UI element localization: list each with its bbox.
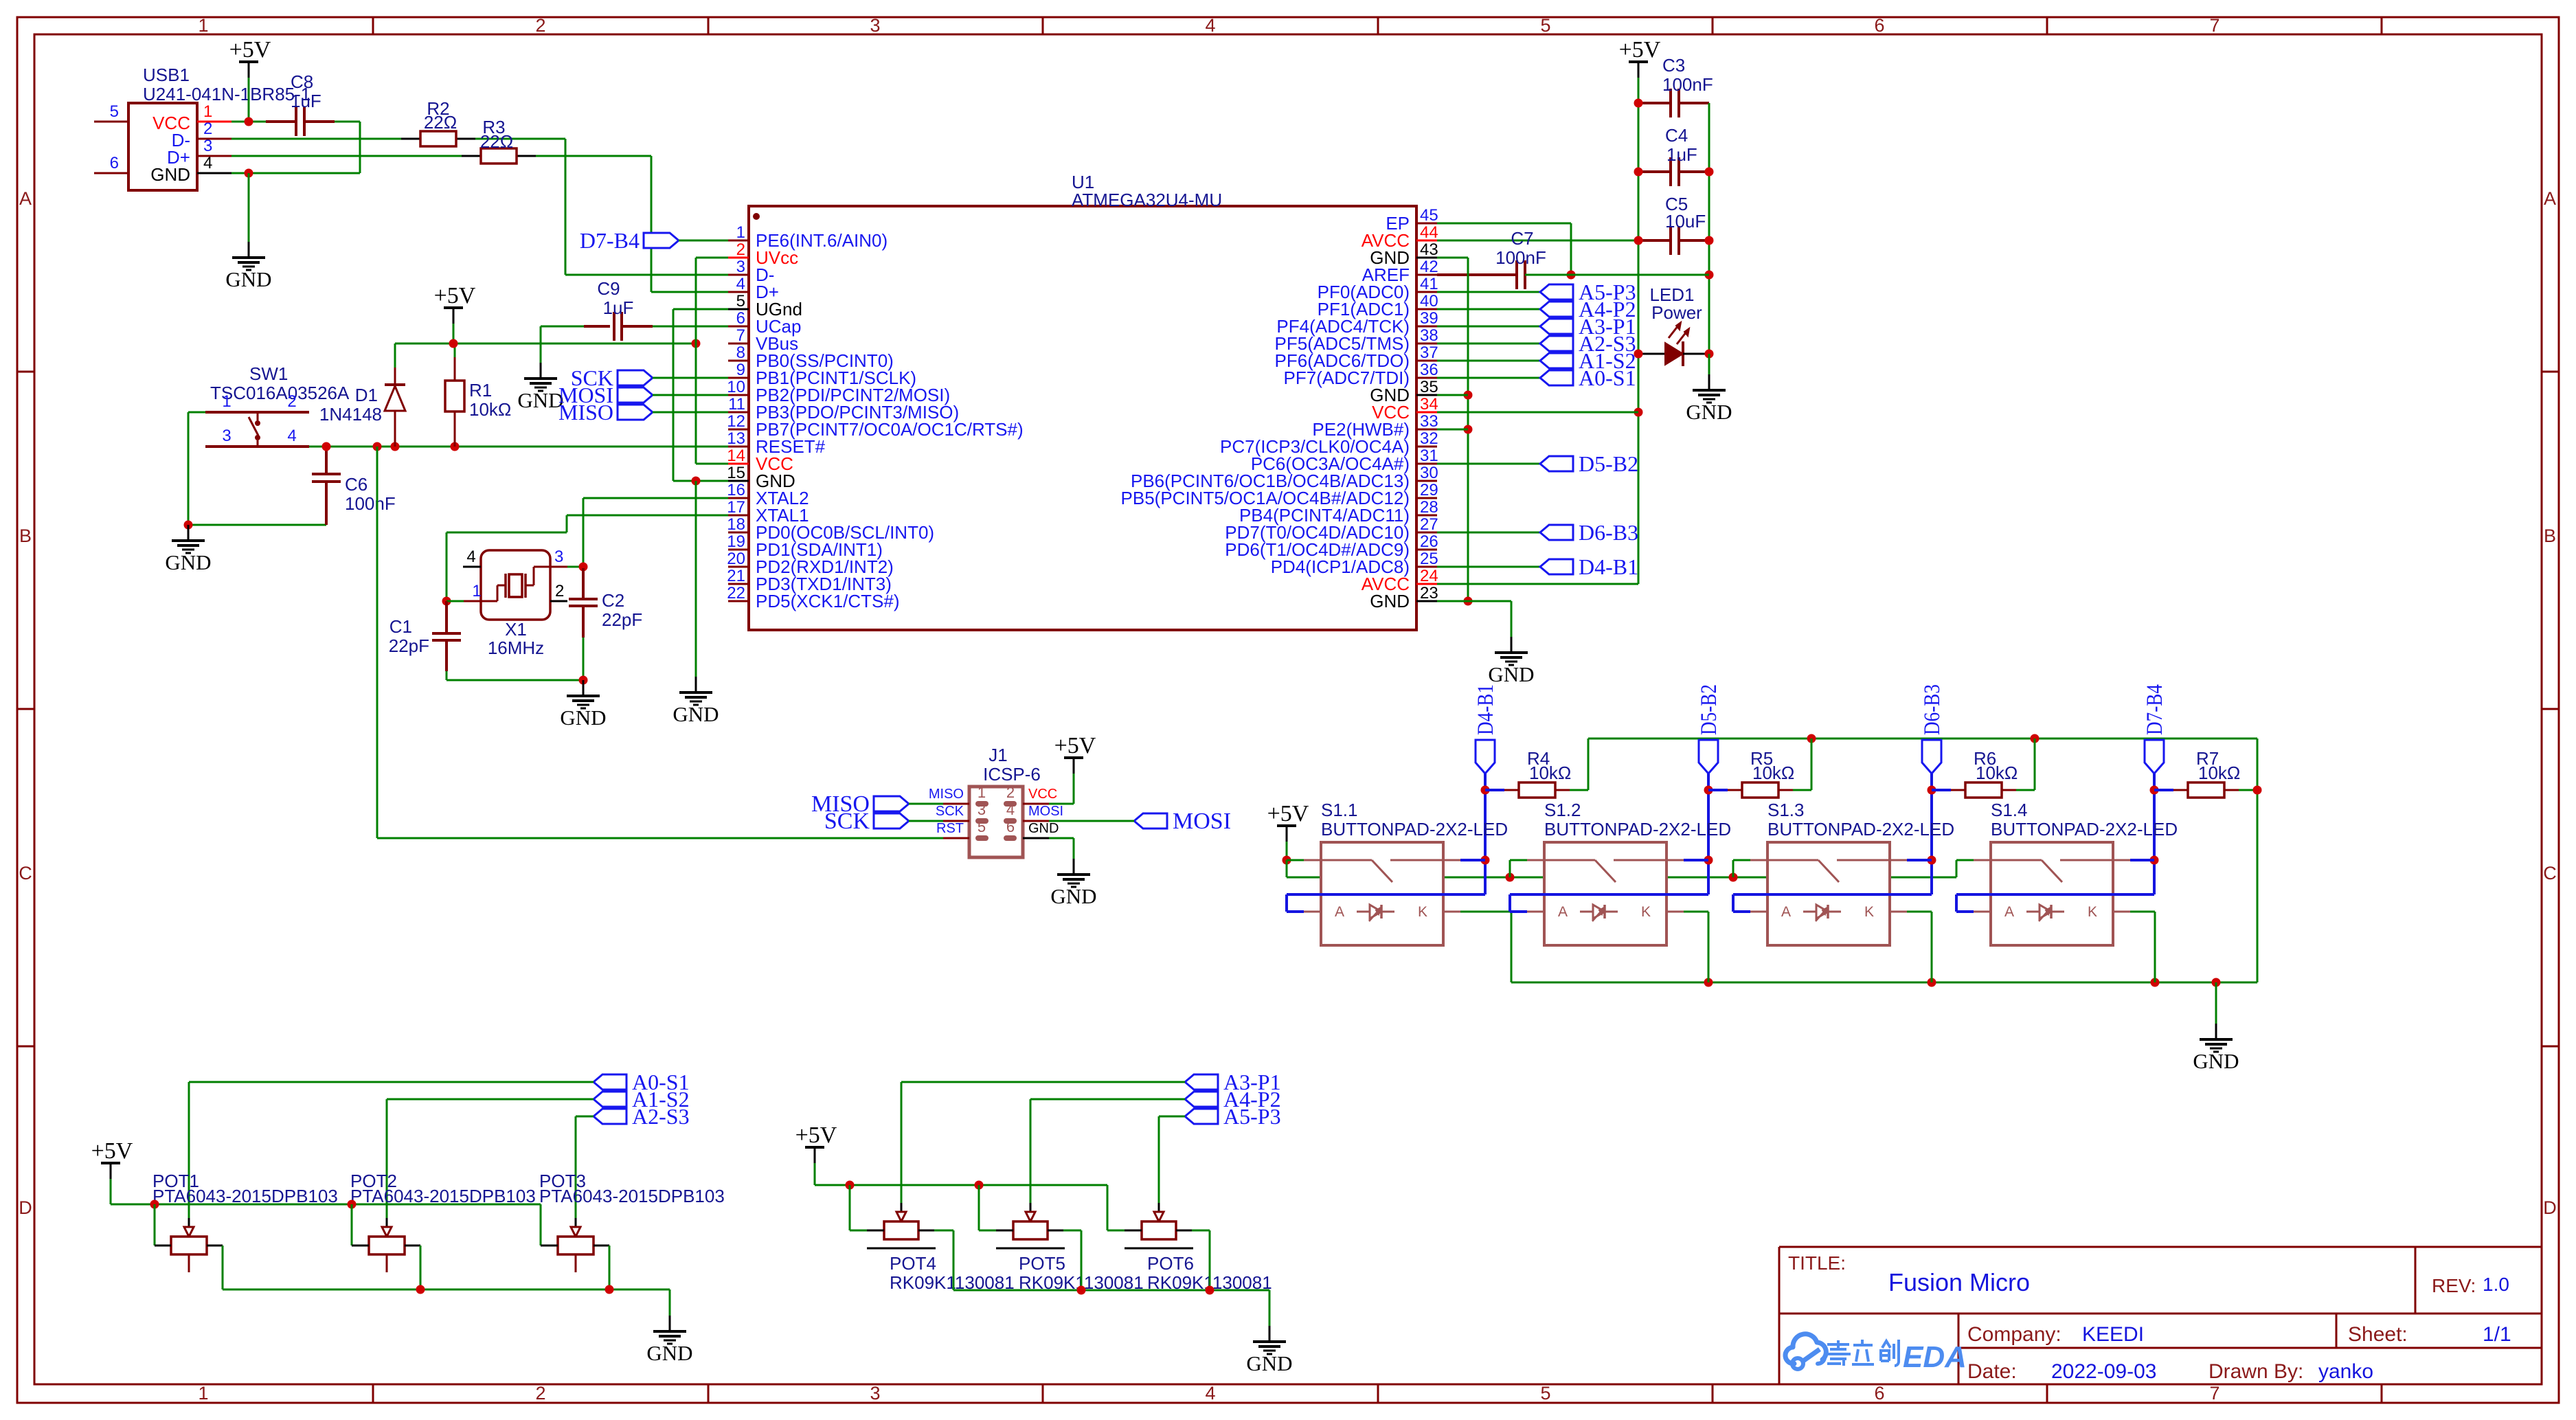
svg-text:35: 35 (1420, 378, 1438, 396)
wire D4-B1 row (1437, 566, 1540, 568)
node +5V button pads (1283, 856, 1291, 865)
svg-text:22: 22 (727, 584, 745, 602)
net port SCK (ICSP) (824, 809, 909, 834)
+5V power flag (AVCC rail) (1619, 37, 1661, 78)
wire R4 to gnd bus (1570, 789, 1588, 791)
svg-text:U241-041N-1BR85-1: U241-041N-1BR85-1 (143, 84, 310, 104)
svg-text:VCC: VCC (1028, 787, 1057, 802)
svg-text:11: 11 (728, 395, 745, 414)
wire +5V pots2 row (814, 1163, 816, 1185)
wire XTAL1 row (567, 515, 728, 517)
U1 pin 35 GND (1370, 378, 1438, 405)
svg-text:A5-P3: A5-P3 (1223, 1104, 1281, 1129)
wire VCC pin34 row (1437, 412, 1638, 414)
svg-text:1uF: 1uF (291, 91, 321, 111)
svg-text:1uF: 1uF (603, 297, 634, 318)
svg-text:6: 6 (1874, 1383, 1884, 1404)
svg-text:Company:: Company: (1967, 1323, 2061, 1346)
svg-text:GND: GND (165, 550, 211, 574)
svg-text:SCK: SCK (936, 804, 964, 819)
USB1 pin 5 stub (94, 121, 128, 123)
wire D6-B3 row (1437, 532, 1540, 534)
svg-text:45: 45 (1420, 206, 1438, 225)
net port MISO (ICSP) (811, 791, 909, 817)
resistor R6 10kohm (1932, 748, 2018, 798)
node D5 resistor tap (1704, 786, 1713, 795)
svg-text:38: 38 (1420, 326, 1438, 345)
svg-text:GND: GND (1050, 884, 1096, 908)
U1 pin 25 PD4(ICP1/ADC8) (1271, 550, 1438, 577)
ground (POT4-6) (1246, 1326, 1292, 1375)
svg-text:SW1: SW1 (249, 363, 288, 384)
wire X1 pin3 to C2 node (567, 566, 583, 568)
svg-text:4: 4 (1006, 801, 1015, 818)
svg-text:PD5(XCK1/CTS#): PD5(XCK1/CTS#) (756, 591, 900, 611)
svg-text:4: 4 (287, 427, 296, 445)
wire GND23 drop (1511, 601, 1513, 637)
svg-text:1: 1 (736, 223, 745, 242)
+5V power flag (POT4-6) (795, 1123, 837, 1163)
wire S1.1 cathode drop (1460, 911, 1511, 913)
wire EP pin45 row (1437, 223, 1571, 225)
wire MOSI to pin10 (653, 394, 728, 396)
wire POT4 wiper net (901, 1081, 1185, 1083)
svg-text:10kΩ: 10kΩ (1976, 763, 2018, 783)
ground (MCU GND pin15) (673, 677, 719, 726)
node GND23 (1464, 597, 1473, 606)
svg-text:10kΩ: 10kΩ (1752, 763, 1794, 783)
wire MISO to J1 pin1 (909, 803, 943, 805)
svg-text:16MHz: 16MHz (488, 638, 544, 658)
svg-text:A: A (1335, 904, 1344, 920)
svg-text:A: A (19, 188, 32, 209)
wire S1.4 switch to D7 net (2130, 859, 2154, 861)
svg-text:7: 7 (2209, 15, 2219, 36)
svg-text:S1.1: S1.1 (1321, 800, 1358, 820)
node GND junction under USB (245, 169, 253, 178)
net port A1-S2 (1540, 348, 1636, 373)
resistor R7 10kohm (2154, 748, 2240, 798)
svg-text:3: 3 (870, 1383, 880, 1404)
U1 pin 28 PB4(PCINT4/ADC11) (1239, 498, 1438, 526)
USB1 pin 2 stub (D-) (197, 138, 231, 140)
wire +5V bypass vertical (1286, 860, 1288, 877)
resistor R5 10kohm (1708, 748, 1794, 798)
svg-text:Sheet:: Sheet: (2348, 1323, 2408, 1346)
svg-text:41: 41 (1420, 275, 1438, 293)
wire SW1 ground row (188, 524, 326, 526)
svg-text:10kΩ: 10kΩ (469, 399, 511, 420)
wire pots2 gnd row (953, 1289, 1269, 1292)
svg-text:37: 37 (1420, 343, 1438, 362)
wire POT5 right (1048, 1230, 1063, 1232)
svg-text:+5V: +5V (1267, 801, 1309, 826)
wire POT1 right (207, 1245, 223, 1247)
capacitor C9 1uF (541, 278, 728, 341)
svg-text:6: 6 (110, 154, 119, 172)
wire D+ row from USB to R3 (231, 155, 462, 157)
svg-text:D: D (2543, 1197, 2557, 1218)
svg-text:D4-B1: D4-B1 (1473, 684, 1498, 735)
U1 pin 16 XTAL2 (727, 481, 809, 508)
svg-text:A: A (1781, 904, 1791, 920)
wire A2-S3 row (1437, 343, 1540, 345)
wire crystal ground row (447, 679, 583, 681)
net port D7-B4 (button pad) (2143, 684, 2167, 774)
wire D7-B4 vertical (2153, 774, 2156, 894)
svg-text:28: 28 (1420, 498, 1438, 517)
U1 pin 3 D- (728, 258, 774, 285)
wire S1.3 +5V riser (1732, 860, 1735, 877)
svg-text:D4-B1: D4-B1 (1579, 554, 1638, 579)
net port A0-S1 (pots) (594, 1070, 690, 1094)
svg-text:43: 43 (1420, 240, 1438, 259)
wire S1.1 +5V feed (1287, 859, 1304, 861)
net port D5-B2 (button pad) (1697, 684, 1721, 774)
U1 pin 10 PB2(PDI/PCINT2/MOSI) (727, 378, 950, 405)
wire S1.4 cathode drop (2130, 911, 2155, 913)
+5V power flag (ICSP) (1054, 733, 1096, 774)
svg-text:BUTTONPAD-2X2-LED: BUTTONPAD-2X2-LED (1321, 819, 1508, 839)
svg-text:ATMEGA32U4-MU: ATMEGA32U4-MU (1072, 190, 1222, 210)
svg-text:BUTTONPAD-2X2-LED: BUTTONPAD-2X2-LED (1767, 819, 1954, 839)
wire POT2 left (351, 1204, 353, 1246)
svg-text:SCK: SCK (824, 809, 870, 834)
ground (MCU pin23) (1488, 637, 1534, 686)
svg-text:2: 2 (535, 1383, 545, 1404)
svg-text:34: 34 (1420, 395, 1438, 414)
switch SW1 TSC016A03526A (205, 363, 350, 447)
svg-text:D5-B2: D5-B2 (1697, 684, 1721, 735)
net port D7-B4 (to MCU PE6) (580, 228, 679, 253)
U1 pin 8 PB0(SS/PCINT0) (728, 343, 894, 371)
U1 pin 15 GND (727, 464, 795, 491)
net port MISO (to MCU PB3) (558, 400, 653, 425)
wire EP vertical (1570, 223, 1572, 275)
svg-text:39: 39 (1420, 309, 1438, 328)
svg-text:C8: C8 (291, 71, 313, 92)
node LED ends (1634, 350, 1643, 359)
svg-text:B: B (2544, 526, 2556, 546)
svg-text:100nF: 100nF (1495, 247, 1546, 268)
wire +5V stem (453, 324, 455, 343)
net port A3-P1 (pots) (1185, 1070, 1281, 1094)
net port D5-B2 (1540, 451, 1638, 476)
connector J1 ICSP-6 (929, 745, 1063, 857)
svg-text:1: 1 (198, 1383, 208, 1404)
potentiometer POT2 PTA6043-2015DPB103 (350, 1171, 536, 1272)
capacitor C8 body (266, 107, 335, 136)
node EP to AREF row (1567, 271, 1576, 280)
svg-text:2: 2 (535, 15, 545, 36)
svg-text:USB1: USB1 (143, 65, 190, 85)
svg-text:6: 6 (1006, 818, 1015, 835)
wire S1.2 cathode drop (1684, 911, 1708, 913)
potentiometer POT1 PTA6043-2015DPB103 (152, 1171, 338, 1272)
node D5 switch tap (1704, 856, 1713, 865)
svg-text:GND: GND (1246, 1351, 1292, 1375)
wire UVcc to pin2 (696, 257, 728, 259)
wire S1.2 +5V riser (1509, 860, 1511, 877)
JLC EDA logo (1785, 1334, 1967, 1374)
crystal X1 16MHz (463, 548, 567, 658)
svg-text:13: 13 (727, 429, 745, 448)
svg-text:1: 1 (978, 784, 986, 801)
op-amp U1 ATMEGA32U4-MU (MCU) (749, 172, 1416, 630)
wire POT6 right (1176, 1230, 1192, 1232)
svg-text:4: 4 (466, 548, 475, 566)
switch S1.2 BUTTONPAD-2X2-LED (1527, 800, 1731, 945)
wire +5V bypass row (1287, 877, 1956, 879)
svg-text:POT4: POT4 (890, 1253, 936, 1274)
svg-text:A: A (1558, 904, 1568, 920)
USB1 pin 3 stub (D+) (197, 155, 231, 157)
svg-text:1/1: 1/1 (2483, 1323, 2511, 1346)
svg-text:31: 31 (1420, 447, 1438, 465)
wire D5-B2 vertical (1707, 774, 1710, 894)
net port A2-S3 (1540, 331, 1636, 356)
USB1 pin 1 stub (VCC) (197, 121, 231, 123)
svg-text:27: 27 (1420, 515, 1438, 534)
U1 pin 26 PD6(T1/OC4D#/ADC9) (1225, 532, 1438, 560)
U1 pin 29 PB5(PCINT5/OC1A/OC4B#/ADC12) (1121, 481, 1438, 508)
svg-text:D7-B4: D7-B4 (2143, 684, 2167, 735)
svg-text:KEEDI: KEEDI (2082, 1323, 2144, 1346)
U1 pin 9 PB1(PCINT1/SCLK) (728, 361, 916, 388)
svg-text:K: K (2088, 904, 2097, 920)
wire J1 pin6 GND (1049, 837, 1074, 839)
svg-text:A0-S1: A0-S1 (1579, 365, 1636, 390)
U1 pin 18 PD0(OC0B/SCL/INT0) (727, 515, 934, 543)
wire D- to MCU pin3 (565, 274, 728, 276)
wire UGnd from pin5 (673, 308, 728, 311)
node UVcc vertical junction (692, 339, 701, 348)
wire D- row from USB to R2 (231, 138, 402, 140)
svg-text:3: 3 (870, 15, 880, 36)
svg-text:C9: C9 (597, 278, 620, 299)
net port A4-P2 (1540, 297, 1636, 322)
svg-text:POT5: POT5 (1019, 1253, 1065, 1274)
wire S1.2 anode route (1510, 893, 1708, 896)
svg-text:24: 24 (1420, 567, 1438, 585)
svg-text:POT6: POT6 (1147, 1253, 1194, 1274)
switch S1.3 BUTTONPAD-2X2-LED (1750, 800, 1954, 945)
net port A0-S1 (1540, 365, 1636, 390)
svg-text:BUTTONPAD-2X2-LED: BUTTONPAD-2X2-LED (1544, 819, 1731, 839)
wire reset vertical to ICSP RST (376, 447, 379, 838)
wire POT2 wiper net (387, 1098, 594, 1101)
svg-text:GND: GND (225, 267, 271, 291)
ground (POT1-3) (646, 1316, 692, 1365)
svg-text:D6-B3: D6-B3 (1579, 520, 1638, 545)
svg-text:EDA: EDA (1903, 1340, 1967, 1374)
wire S1.2 switch to D5 net (1684, 859, 1708, 861)
wire +5V pots row (110, 1179, 112, 1204)
wire S1.4 anode route (1956, 893, 2154, 896)
svg-text:S1.2: S1.2 (1544, 800, 1581, 820)
wire POT4 right (918, 1230, 934, 1232)
node GND35 (1464, 391, 1473, 400)
wire S1.4 +5V riser (1956, 860, 1958, 877)
U1 pin 20 PD2(RXD1/INT2) (727, 550, 894, 577)
svg-text:9: 9 (736, 361, 745, 379)
svg-text:REV:: REV: (2432, 1275, 2476, 1296)
svg-text:12: 12 (727, 412, 745, 431)
ground (button pads) (2193, 1024, 2239, 1073)
U1 pin 4 D+ (728, 275, 779, 302)
svg-text:D1: D1 (355, 385, 378, 405)
svg-text:1: 1 (203, 102, 212, 121)
U1 pin 40 PF1(ADC1) (1318, 292, 1438, 319)
svg-text:29: 29 (1420, 481, 1438, 499)
svg-text:22pF: 22pF (389, 635, 429, 656)
node SW1 gnd corner (184, 521, 193, 530)
wire POT1 wiper net (189, 1081, 594, 1083)
svg-text:MISO: MISO (929, 787, 964, 802)
wire GND pin35 row (1437, 394, 1468, 396)
wire R6 to gnd bus (2016, 789, 2035, 791)
wire VBus row 500 (395, 343, 696, 345)
svg-text:R1: R1 (469, 380, 492, 401)
svg-text:1N4148: 1N4148 (319, 404, 382, 425)
svg-text:GND: GND (517, 388, 563, 412)
svg-text:C7: C7 (1511, 228, 1533, 249)
U1 pin 7 VBus (728, 326, 798, 354)
svg-text:4: 4 (1205, 15, 1215, 36)
svg-text:ICSP-6: ICSP-6 (983, 764, 1041, 785)
svg-text:4: 4 (1205, 1383, 1215, 1404)
svg-text:C4: C4 (1665, 125, 1688, 146)
ground (crystal) (560, 680, 606, 730)
svg-text:+5V: +5V (1054, 733, 1096, 758)
wire GND row (pin4 to corner) (231, 172, 360, 174)
net port D6-B3 (1540, 520, 1638, 545)
svg-text:3: 3 (736, 258, 745, 276)
svg-text:MISO: MISO (558, 400, 613, 425)
U1 pin 43 GND (1370, 240, 1438, 268)
+5V power flag (button pads) (1267, 801, 1309, 842)
wire USB GND drop (248, 173, 250, 242)
wire C8 right to corner (335, 121, 360, 123)
net port D6-B3 (button pad) (1920, 684, 1945, 774)
U1 pin 34 VCC (1372, 395, 1438, 422)
node GND drop junction (692, 477, 701, 486)
svg-text:10kΩ: 10kΩ (2198, 763, 2240, 783)
wire A4-P2 row (1437, 308, 1540, 311)
wire VCC row (pin1 to C8) (231, 121, 266, 123)
svg-text:A: A (2544, 188, 2556, 209)
wire GND pin43 vertical (1467, 258, 1469, 601)
node D7 resistor tap (2150, 786, 2159, 795)
+5V power flag (reset) (434, 283, 476, 324)
wire POT4 left (849, 1185, 851, 1230)
ground (C9) (517, 363, 563, 412)
svg-text:GND: GND (560, 706, 606, 730)
svg-text:A: A (2004, 904, 2014, 920)
svg-text:2: 2 (736, 240, 745, 259)
U1 pin 33 PE2(HWB#) (1312, 412, 1438, 440)
wire S1.1 switch to D4 net (1460, 859, 1485, 861)
potentiometer POT6 RK09K1130081 (1125, 1212, 1272, 1293)
svg-text:+5V: +5V (91, 1138, 133, 1164)
wire S1.1 anode route (1287, 893, 1485, 896)
wire A3-P1 row (1437, 326, 1540, 328)
svg-text:16: 16 (727, 481, 745, 499)
wire UVcc/VCC vertical (695, 258, 697, 464)
net port A2-S3 (pots) (594, 1104, 690, 1129)
U1 pin 19 PD1(SDA/INT1) (727, 532, 883, 560)
svg-text:+5V: +5V (229, 37, 271, 63)
svg-text:GND: GND (1686, 400, 1732, 424)
svg-text:1: 1 (472, 582, 481, 600)
wire D+ vertical (651, 156, 653, 292)
U1 pin 41 PF0(ADC0) (1318, 275, 1438, 302)
wire GND bus right vertical (2257, 739, 2259, 982)
svg-text:3: 3 (554, 548, 563, 566)
title block (1779, 1247, 2542, 1384)
wire AREF row to gnd rail (1571, 274, 1709, 276)
svg-text:6: 6 (736, 309, 745, 328)
svg-text:K: K (1864, 904, 1874, 920)
wire R3 to corner (536, 155, 651, 157)
svg-text:19: 19 (727, 532, 745, 551)
net port A5-P3 (pots) (1185, 1104, 1281, 1129)
svg-text:A2-S3: A2-S3 (632, 1104, 690, 1129)
svg-text:GND: GND (1370, 591, 1410, 611)
wire R7 to gnd bus (2239, 789, 2257, 791)
svg-text:C1: C1 (389, 616, 412, 637)
U1 pin 30 PB6(PCINT6/OC1B/OC4B/ADC13) (1131, 464, 1438, 491)
wire reset row SW1 pin4 to MCU pin13 (309, 446, 728, 448)
svg-text:1: 1 (198, 15, 208, 36)
potentiometer POT4 RK09K1130081 (867, 1212, 1015, 1293)
node X1 pin1 junction (442, 597, 451, 606)
svg-text:BUTTONPAD-2X2-LED: BUTTONPAD-2X2-LED (1991, 819, 2178, 839)
svg-text:Power: Power (1651, 302, 1702, 323)
svg-text:+5V: +5V (795, 1123, 837, 1148)
svg-text:42: 42 (1420, 258, 1438, 276)
switch S1.1 BUTTONPAD-2X2-LED (1304, 800, 1508, 945)
wire A1-S2 row (1437, 360, 1540, 362)
svg-text:D7-B4: D7-B4 (580, 228, 640, 253)
svg-text:10kΩ: 10kΩ (1529, 763, 1571, 783)
svg-text:17: 17 (727, 498, 745, 517)
wire LED cathode to gnd (1708, 354, 1710, 374)
wire bottom bus to ground (2215, 982, 2217, 1024)
wire SCK to pin9 (653, 377, 728, 379)
wire +5V rail vertical (1638, 78, 1640, 584)
svg-text:10uF: 10uF (1665, 211, 1706, 232)
svg-text:6: 6 (1874, 15, 1884, 36)
node rail dots (1634, 99, 1643, 108)
U1 pin 13 RESET# (727, 429, 825, 457)
svg-text:33: 33 (1420, 412, 1438, 431)
U1 pin 42 AREF (1362, 258, 1438, 285)
net port A4-P2 (pots) (1185, 1087, 1281, 1112)
svg-text:7: 7 (736, 326, 745, 345)
svg-text:100nF: 100nF (1662, 74, 1713, 95)
capacitor C2 22pF (569, 568, 642, 680)
svg-text:22Ω: 22Ω (424, 112, 457, 133)
svg-text:40: 40 (1420, 292, 1438, 311)
svg-text:30: 30 (1420, 464, 1438, 482)
wire PE2 pin33 row (1437, 429, 1468, 431)
svg-text:1uF: 1uF (1667, 144, 1697, 165)
wire POT5 left (978, 1185, 980, 1230)
svg-text:2: 2 (287, 392, 296, 411)
wire SW1 pin1 to GND corner (188, 412, 205, 414)
wire pots gnd row (223, 1289, 670, 1291)
